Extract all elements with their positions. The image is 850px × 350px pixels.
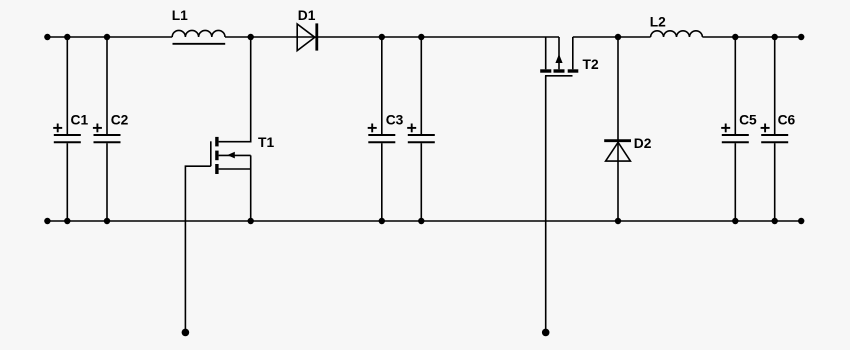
svg-text:C2: C2	[111, 113, 129, 128]
svg-text:L2: L2	[650, 15, 666, 30]
svg-text:L1: L1	[172, 8, 188, 23]
svg-text:D2: D2	[634, 136, 652, 151]
svg-text:C1: C1	[71, 113, 89, 128]
svg-text:D1: D1	[298, 8, 316, 23]
svg-text:T1: T1	[258, 135, 274, 150]
svg-text:C5: C5	[739, 113, 757, 128]
svg-text:C3: C3	[386, 113, 404, 128]
svg-text:T2: T2	[583, 57, 599, 72]
svg-text:C6: C6	[778, 113, 796, 128]
